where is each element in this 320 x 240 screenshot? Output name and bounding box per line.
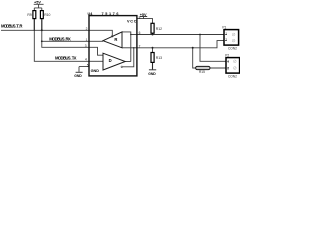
svg-text:1: 1	[227, 60, 229, 64]
svg-text:+5V: +5V	[34, 1, 41, 5]
svg-text:6: 6	[139, 31, 141, 35]
svg-text:2: 2	[86, 27, 88, 31]
svg-text:MODBUS_TX: MODBUS_TX	[55, 56, 77, 61]
svg-text:MODBUS_T_R: MODBUS_T_R	[1, 24, 23, 29]
svg-text:2: 2	[225, 38, 227, 42]
svg-text:CON2: CON2	[228, 46, 237, 50]
svg-text:3: 3	[85, 44, 87, 48]
svg-text:1: 1	[86, 38, 88, 42]
svg-text:2: 2	[227, 66, 229, 70]
svg-text:R13: R13	[156, 56, 162, 60]
svg-text:D: D	[109, 58, 112, 63]
svg-text:MODBUS_RX: MODBUS_RX	[49, 36, 71, 41]
svg-text:GND: GND	[74, 74, 82, 78]
svg-text:R15: R15	[199, 70, 205, 74]
svg-text:P2: P2	[225, 54, 229, 58]
svg-text:CON2: CON2	[228, 74, 237, 78]
svg-text:7: 7	[139, 45, 141, 49]
svg-text:8: 8	[139, 15, 141, 19]
svg-text:VCC: VCC	[127, 20, 137, 24]
svg-text:P1: P1	[222, 25, 226, 29]
svg-text:R12: R12	[156, 27, 162, 31]
svg-text:+5V: +5V	[140, 13, 147, 17]
svg-text:GND: GND	[148, 72, 156, 76]
svg-text:R10: R10	[44, 13, 50, 17]
svg-text:5: 5	[87, 63, 89, 67]
svg-text:R9: R9	[27, 13, 31, 17]
svg-text:R: R	[114, 37, 117, 42]
svg-text:1: 1	[225, 32, 227, 36]
svg-text:GND: GND	[91, 69, 100, 73]
svg-text:4: 4	[85, 58, 87, 62]
